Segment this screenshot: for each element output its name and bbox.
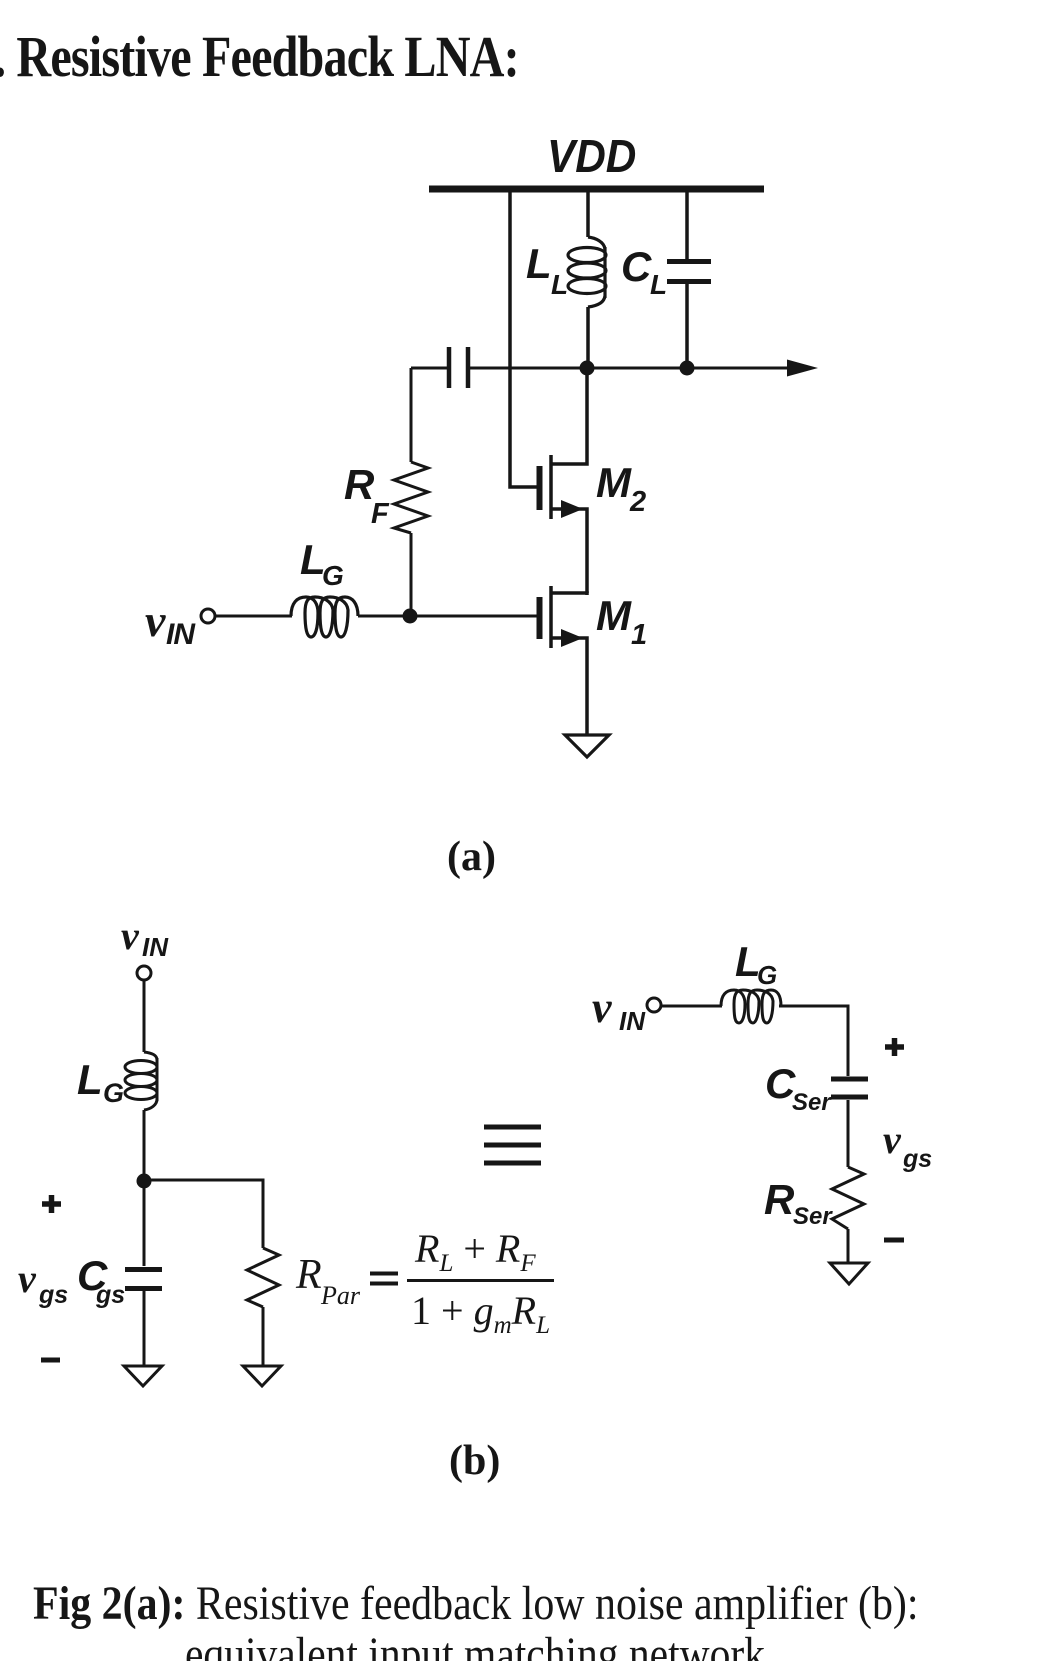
resistor RF — [394, 462, 428, 533]
minus sign b-right — [884, 1238, 904, 1243]
label vgs (b-left) — [18, 1259, 36, 1299]
capacitor CL top lead wire — [685, 192, 689, 259]
label (b) — [449, 1440, 500, 1482]
wire LG to CSer corner — [779, 1006, 848, 1076]
caption line 1 — [33, 1580, 919, 1628]
wire LG to node — [143, 1110, 146, 1178]
inductor LL — [568, 237, 606, 307]
wire LG to M1 gate — [358, 615, 537, 618]
plus sign b-right — [885, 1038, 904, 1056]
inductor LG vertical (b-left) — [125, 1052, 157, 1110]
label Cgs — [77, 1255, 107, 1297]
label M2 — [596, 462, 631, 504]
capacitor CL bottom lead wire — [685, 284, 689, 365]
(b) left: vIN terminal circle — [137, 966, 151, 980]
label LL — [526, 243, 552, 285]
label vgs (b-right) — [883, 1120, 901, 1160]
fraction bar — [407, 1279, 554, 1282]
coupling capacitor — [449, 347, 468, 388]
label VDD — [547, 133, 636, 179]
label CL — [621, 246, 651, 288]
inductor LL bottom lead wire — [586, 307, 590, 365]
wire RF bottom lead — [410, 533, 413, 612]
label vIN (a) — [145, 598, 165, 644]
transistor M2 — [540, 371, 588, 593]
label RSer — [764, 1179, 794, 1221]
inductor LG — [291, 597, 358, 637]
capacitor CSer — [831, 1079, 868, 1097]
title text — [0, 28, 519, 86]
label vIN (b-left) — [121, 916, 139, 956]
wire vIN down to LG — [143, 980, 146, 1052]
label LG (b-right) — [735, 941, 761, 983]
(b) right: vIN terminal circle — [647, 998, 661, 1012]
ground below RPar — [243, 1366, 281, 1386]
wire CSer to RSer — [847, 1100, 850, 1167]
label LG (b-left) — [77, 1059, 103, 1101]
plus sign b-left — [42, 1195, 61, 1213]
wire RPar to ground — [262, 1307, 265, 1366]
minus sign b-left — [41, 1358, 60, 1363]
wire RSer to ground — [847, 1229, 850, 1263]
wire feedback corner to coupling cap — [411, 367, 447, 370]
caption line 2 — [185, 1631, 765, 1661]
wire RF top lead — [410, 368, 413, 462]
label CSer — [765, 1063, 795, 1105]
node input junction dot — [403, 609, 418, 624]
inductor LG horizontal (b-right) — [721, 990, 781, 1023]
formula denominator — [411, 1291, 550, 1331]
input terminal vIN circle — [201, 609, 215, 623]
output wire — [470, 367, 798, 370]
capacitor CL — [667, 262, 711, 282]
label M1 — [596, 595, 631, 637]
formula numerator — [415, 1229, 536, 1269]
label vIN (b-right) — [592, 986, 612, 1030]
resistor RPar — [247, 1248, 279, 1307]
ground b-right — [830, 1263, 868, 1284]
capacitor Cgs — [125, 1270, 162, 1289]
label RF — [344, 464, 374, 506]
wire M2 gate to VDD — [510, 192, 537, 487]
label (a) — [447, 836, 496, 878]
label LG (a) — [300, 539, 326, 581]
VDD rail — [429, 186, 764, 193]
wire vIN to LG — [216, 615, 292, 618]
output arrowhead — [787, 360, 818, 377]
wire node to RPar branch — [144, 1180, 263, 1248]
node CL junction dot — [680, 361, 695, 376]
equivalence symbol — [484, 1127, 541, 1163]
formula equals sign — [370, 1274, 398, 1284]
node drain junction dot — [580, 361, 595, 376]
transistor M1 — [540, 586, 588, 735]
formula RPar — [296, 1254, 322, 1296]
wire vIN to LG (b-right) — [661, 1005, 722, 1008]
ground below Cgs — [124, 1366, 162, 1386]
wire Cgs to ground — [143, 1291, 146, 1366]
wire node to Cgs — [143, 1181, 146, 1266]
inductor LL top lead wire — [586, 192, 590, 237]
resistor RSer — [832, 1167, 864, 1229]
ground of M1 source — [565, 735, 609, 757]
node gate junction dot — [137, 1174, 152, 1189]
